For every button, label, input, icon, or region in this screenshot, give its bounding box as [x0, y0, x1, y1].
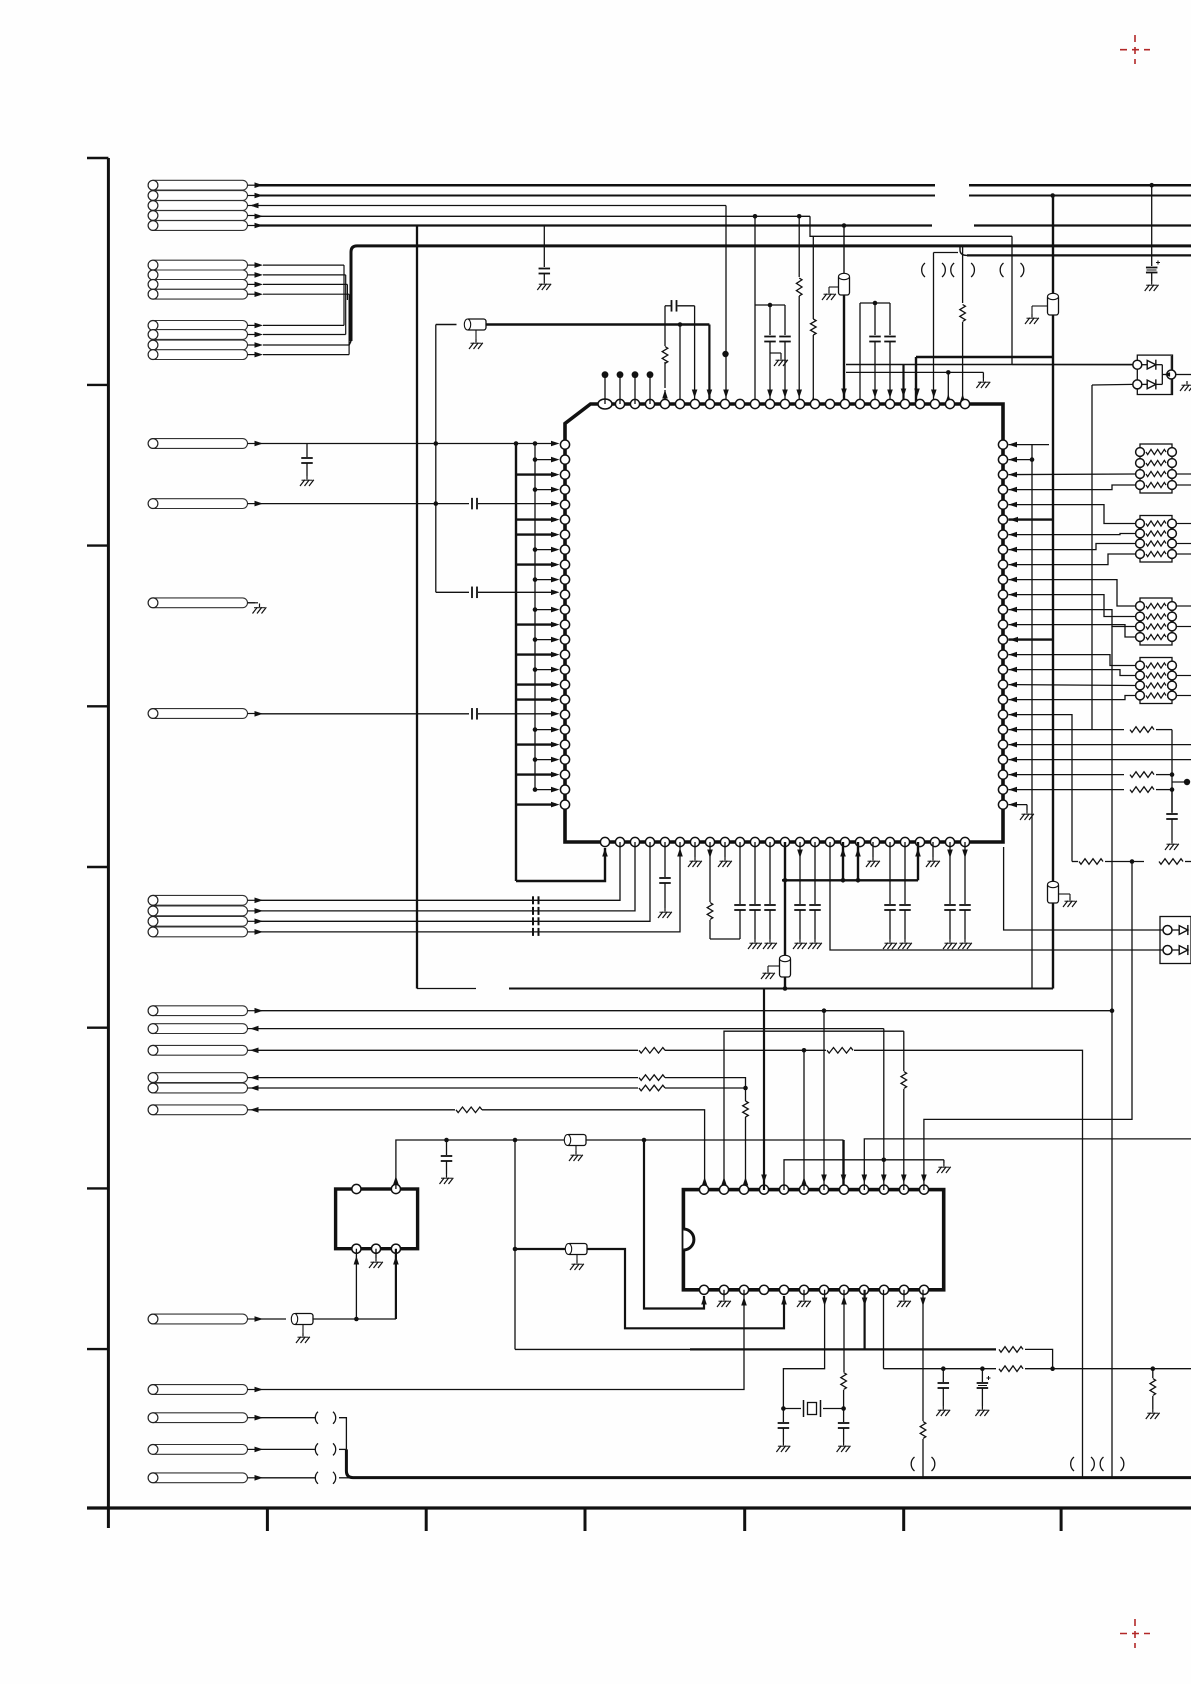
connector CN6: [148, 598, 247, 608]
connector CN8 pin 3: [148, 916, 247, 926]
capacitor C1 with ground: [543, 226, 545, 268]
RN2 resistor 1: [1136, 519, 1145, 528]
wire thick rail into IC2 pin T8: [842, 1140, 844, 1190]
capacitor C11 with ground x1172: [1171, 790, 1173, 813]
jumper J1 into pin T23: [933, 253, 935, 405]
IC U1 QFP body: [565, 404, 1003, 842]
connector CN1 pin 4: [148, 211, 247, 221]
connector CN18: [148, 1445, 247, 1455]
wire x1082 to jumper J5: [1082, 1455, 1084, 1477]
RN3 resistor 1: [1136, 602, 1145, 611]
connector CN12: [148, 1073, 247, 1083]
node pin T6 tap: [678, 322, 683, 327]
ground of T24 rail: [982, 372, 984, 378]
crystal X2: [781, 1406, 786, 1411]
wire thick rail to pin T8: [486, 323, 709, 325]
wire IC2 B10 to rail y1368: [883, 1290, 885, 1369]
wire IC2 B3 to CN16 line: [255, 1290, 744, 1390]
wire thick into U1 pin L17: [516, 683, 556, 685]
connector CN6 ground stub: [248, 602, 259, 604]
wire into U1 pin L14: [533, 637, 538, 642]
ground of L6: [575, 1146, 577, 1152]
node on bus CN1-2: [1050, 193, 1055, 198]
resistor R10 under pin B8: [709, 842, 711, 902]
diode block D3 D4 box: [1160, 917, 1191, 964]
wire thick into U1 pin L21: [516, 743, 556, 745]
ground of L1: [475, 330, 477, 339]
connector CN19: [148, 1473, 247, 1483]
diode block D1 D2 box: [1137, 355, 1172, 394]
connector CN1 pin 5: [148, 221, 247, 231]
capacitor C6 to pin T20: [889, 303, 891, 335]
capacitor C22 with ground on rail: [446, 1140, 448, 1155]
capacitor C26 polarized with ground: [981, 1369, 983, 1382]
wire row4 jog down: [810, 216, 1012, 236]
ground stub pin B9: [724, 842, 726, 857]
wire U1 pin R19 to x1072: [1009, 715, 1073, 862]
RN2 resistor 3: [1136, 539, 1145, 548]
module X1 body: [336, 1189, 418, 1249]
wire IC2 T11 with resistor R17: [903, 1031, 905, 1071]
wire pin B16 to D2 row: [830, 842, 1168, 950]
wire CN15 with ferrite bead L8: [255, 1318, 286, 1320]
wire into U1 pin L24: [533, 787, 538, 792]
wire CN5 to U1 pin L5 with series capacitor C8: [255, 503, 469, 505]
wire thick into U1 pin L18: [516, 698, 556, 700]
ground stub X1 B2: [375, 1249, 377, 1258]
wire CN19 with break joining thick bus: [255, 1477, 315, 1479]
wire CN9 line: [255, 1010, 1112, 1012]
border bottom rule: [87, 1506, 1191, 1509]
wire thick bottom bus: [346, 1449, 1191, 1477]
wire bundle B1-C1: [343, 265, 345, 325]
wire IC2 B12 with resistor R19 to jumper: [922, 1290, 924, 1421]
wire IC2 T7 riser: [823, 1011, 825, 1190]
diode common node: [1161, 365, 1163, 385]
capacitor C23 with ground: [782, 1409, 784, 1423]
diode D4: [1163, 946, 1172, 955]
border left zone ticks: [87, 384, 108, 386]
capacitor C2 series: [665, 305, 671, 307]
wire U1 pin R20 row with resistor R5: [1009, 729, 1125, 731]
capacitor C5 to pin T19: [874, 303, 876, 335]
wire IC2 T12 feed: [924, 862, 1132, 1191]
wire into pin T7: [694, 306, 696, 404]
wire CN12 line with resistor R13: [255, 1077, 638, 1079]
ground stub pin B23: [932, 842, 934, 857]
wire into U1 pin L10: [533, 577, 538, 582]
ground stub IC2 B6: [803, 1290, 805, 1297]
diode output pin: [1170, 356, 1172, 394]
wire big-loop vertical: [416, 226, 418, 989]
wire CN11 line with resistors R11 R12: [255, 1049, 638, 1051]
X1 top pins: [352, 1184, 361, 1193]
ground of bead L7: [576, 1255, 578, 1261]
rail y1140: [440, 1139, 844, 1141]
ground stub of L2: [829, 286, 839, 288]
connector CN10: [148, 1024, 247, 1034]
wire thick into U1 pin L7: [516, 533, 556, 535]
wire thick pins B17 B18 B22 rail: [782, 879, 918, 881]
capacitor C7 with ground on CN4 line: [306, 444, 308, 458]
wire bus CN1-3: [252, 205, 726, 207]
wire CN18 with break: [255, 1448, 315, 1450]
wire U1 pin R17 to RN4: [1009, 684, 1136, 687]
RN3 resistor 3: [1136, 622, 1145, 631]
wire U1 pin R21 long: [1009, 744, 1191, 746]
RN4 resistor 1: [1136, 661, 1145, 670]
border left rule: [107, 158, 110, 1528]
wire IC2 T5 to ground rail y1160: [784, 1160, 944, 1190]
wire U1 pin R11 to RN3: [1009, 595, 1136, 617]
wire into U1 pin L16: [533, 667, 538, 672]
wire X1 T2 riser to y1140 rail: [396, 1140, 440, 1189]
capacitor C18 with ground under pin B20: [889, 842, 891, 904]
wire U1 pin R15 to RN4: [1009, 655, 1136, 666]
wire U1 pin R13 to RN3: [1009, 625, 1136, 637]
wire bundle B2-C2: [345, 275, 347, 335]
ferrite bead L1 on U1 pin T8 rail: [436, 324, 457, 326]
wires CN8 rows to U1 pins B2 B3 B4 B6: [255, 842, 620, 900]
connector CN15: [148, 1314, 247, 1324]
X1 bottom pins: [352, 1244, 361, 1253]
wire thick rail to pin T22: [916, 356, 1053, 358]
jumper J5: [1071, 1457, 1095, 1471]
wire CN17 with break: [255, 1417, 315, 1419]
wire U1 pin R10 to RN3: [1009, 580, 1136, 606]
node row4 dropper: [797, 214, 802, 219]
wire thick into U1 pin L23: [516, 773, 556, 775]
diode D2: [1133, 380, 1142, 389]
RN1 resistor 2: [1136, 459, 1145, 468]
capacitor C24 with ground: [843, 1409, 845, 1423]
wire into U1 pin L4: [533, 487, 538, 492]
RN4 resistor 4: [1136, 691, 1145, 700]
wire bundle B3-C3 thick riser: [346, 284, 348, 300]
wire into U1 pin L12: [533, 607, 538, 612]
connector CN1 pin 1: [148, 180, 247, 190]
wire U1 pin R9 to RN2: [1009, 554, 1136, 565]
wire thick IC2 B9 to rail y1349: [863, 1290, 865, 1350]
wire jog CN1-3 to row4: [725, 206, 727, 217]
jumper J4: [911, 1457, 935, 1471]
wire thick U1 pin R14 from VCC x1053: [1009, 638, 1054, 640]
wire branch to U1 pin L11 with series capacitor C9: [436, 591, 469, 593]
connector CN17: [148, 1413, 247, 1423]
wire CN7 to U1 pin L19 with series capacitor C10: [255, 713, 469, 715]
node pin T24 feed: [946, 370, 951, 375]
wire IC2 B7 to crystal: [783, 1290, 824, 1409]
IC2 notch: [683, 1229, 694, 1250]
capacitor C15 with ground under pin B12: [769, 842, 771, 904]
capacitor C25 with ground: [942, 1369, 944, 1382]
U1 right pins: [998, 440, 1007, 449]
resistor R9: [1159, 859, 1183, 865]
wire U1 pin R22 long: [1009, 759, 1191, 761]
border bottom zone ticks: [266, 1508, 269, 1531]
wire into IC2 pin T3 with resistor R15: [745, 1088, 747, 1101]
connector CN8 pin 2: [148, 906, 247, 916]
capacitor C20 with ground under pin B24: [949, 842, 951, 904]
connector CN3 pin 1: [148, 321, 247, 331]
ground stub IC2 B11: [903, 1290, 905, 1297]
diode output stub: [1176, 374, 1191, 376]
wire x515 vertical: [514, 1140, 516, 1349]
node row5 dropper to L2 bead: [842, 223, 847, 228]
feedthrough capacitor marks on CN8 rows: [533, 896, 539, 904]
wire IC2 T4 thick from rail y988: [763, 989, 765, 1191]
wire thick bead rail to IC2 pin B5: [515, 1248, 566, 1250]
capacitor C17 with ground under pin B15: [814, 842, 816, 904]
wire thick vertical feed bus x516: [515, 445, 517, 882]
wire into U1 pin L8: [533, 547, 538, 552]
ferrite bead L6 on rail: [564, 1135, 586, 1146]
U1 no-connect dots above pins T1-T4: [604, 378, 606, 404]
capacitor C4 to pin T13: [784, 305, 786, 335]
jumper J3: [1011, 236, 1013, 364]
resistor network RN2 body: [1140, 516, 1172, 563]
connector CN11: [148, 1045, 247, 1055]
RN1 resistor 1: [1136, 448, 1145, 457]
wire IC2 B8 with resistor R18 to crystal: [843, 1290, 845, 1372]
wire IC2 T6 riser: [803, 1050, 805, 1190]
connector CN8 pin 4: [148, 927, 247, 937]
ground stub of L3: [1032, 305, 1048, 307]
wire thick into U1 pin L15: [516, 653, 556, 655]
wire J1 top link: [934, 252, 959, 254]
ground stub left rail: [770, 352, 781, 354]
wire thick into pin T17: [843, 295, 845, 404]
capacitor C16 with ground under pin B14: [799, 842, 801, 904]
resistor R2 into pin T14: [798, 216, 800, 277]
wire thick B1 feed: [516, 848, 605, 881]
ferrite bead L4 on x1053: [1048, 881, 1059, 903]
registration cross top-right: [1120, 35, 1150, 64]
rail y1368.7 with components: [884, 1368, 997, 1370]
resistor R1 on pin T5: [664, 390, 666, 404]
connector CN3 pin 4: [148, 350, 247, 360]
wire thick U1 pin R6 from VCC x1053: [1009, 518, 1054, 520]
wire into U1 pin L2: [533, 457, 538, 462]
capacitor C19 with ground under pin B21: [904, 842, 906, 904]
resistor R3 into pin T15: [812, 236, 814, 319]
wire x1112 upper: [1111, 627, 1113, 1011]
wire left branch vertical x436: [435, 325, 437, 593]
connector CN1 pin 2: [148, 191, 247, 201]
wire x1112 vertical: [1111, 1011, 1113, 1478]
RN3 resistor 4: [1136, 633, 1145, 642]
wire x1092 to D2: [1092, 383, 1133, 386]
wire U1 pin R23 row with resistor R6: [1009, 774, 1125, 776]
wire second thick rail right: [960, 246, 967, 256]
wire thick bus VCC: [351, 246, 1191, 341]
wire U1 pin R8 to RN2: [1009, 544, 1136, 550]
connector CN14: [148, 1105, 247, 1115]
wire top rail T11-T13: [755, 304, 785, 306]
wire thick X1 B3 riser: [395, 1249, 397, 1319]
connector CN3 pin 2: [148, 330, 247, 340]
IC2 bottom pins: [699, 1285, 708, 1294]
connector CN5: [148, 499, 247, 509]
RN4 resistor 2: [1136, 671, 1145, 680]
node option dot on T9 wire: [722, 351, 728, 357]
node on bus CN1-1: [1149, 183, 1154, 188]
jumper J2 with resistor R4 into pin T25: [962, 246, 964, 303]
capacitor C12 with ground on pin B5: [664, 842, 666, 877]
connector CN7: [148, 709, 247, 719]
wire pin T11 lower: [754, 305, 756, 404]
wire IC2 T10 from node: [883, 1160, 885, 1190]
wire thick VCC corner to bottom rail: [1052, 903, 1054, 989]
rail y1349 with resistor R20: [515, 1348, 690, 1350]
U1 top pins: [615, 399, 624, 408]
wire U1 pin R25 with ground: [1009, 804, 1028, 806]
connector CN4: [148, 439, 247, 449]
node x1132 on row: [1130, 859, 1135, 864]
wire U1 pin R3 to RN1: [1009, 473, 1136, 476]
connector CN13: [148, 1083, 247, 1093]
wire thick rail to pin T21: [846, 364, 1136, 366]
wire U1 pin R1 from x1032 bus: [1032, 444, 1049, 446]
ground stub of L4: [1059, 893, 1071, 895]
U1 left pins: [560, 440, 569, 449]
node right edge: [1172, 781, 1187, 783]
wire thick x644 to IC2 pin B1: [644, 1140, 704, 1309]
wire U1 pin R18 to RN4: [1009, 696, 1136, 700]
IC2 DIP body: [683, 1190, 943, 1290]
connector CN1 pin 3: [148, 201, 247, 211]
RN3 resistor 2: [1136, 612, 1145, 621]
RN2 resistor 4: [1136, 550, 1145, 559]
wire thick pin B13 with ferrite bead L5: [784, 842, 786, 957]
connector CN9: [148, 1006, 247, 1016]
wire into U1 pin L22: [533, 757, 538, 762]
resistor network RN3 body: [1140, 598, 1172, 645]
capacitor C3 to pin T12: [769, 305, 771, 335]
wire CN13 line with resistor R14: [255, 1087, 638, 1089]
wire thick into U1 pin L6: [516, 518, 556, 520]
wire thick into U1 pin L9: [516, 563, 556, 565]
border top-left tick: [87, 157, 108, 160]
resistor R8: [1079, 859, 1103, 865]
wire pin T11 riser: [754, 216, 756, 305]
U1 bottom pins: [600, 837, 609, 846]
wire thick into U1 pin L25: [516, 803, 556, 805]
RN right side stubs: [1177, 473, 1191, 475]
IC2 top pins: [699, 1185, 708, 1194]
ground stub IC2 B2: [723, 1290, 725, 1297]
wire U1 pin R24 row with resistor R7: [1009, 789, 1125, 791]
ground of L8: [302, 1325, 304, 1334]
wire pin R24 riser to D1 row: [1004, 847, 1168, 930]
wire x1072 corner row: [1072, 861, 1078, 863]
RN4 resistor 3: [1136, 681, 1145, 690]
wire bus CN1-4: [255, 215, 810, 217]
wire bus CN1-1: [255, 184, 935, 187]
wire pin T18 riser: [859, 303, 861, 404]
diode D1: [1133, 360, 1142, 369]
RN1 resistor 4: [1136, 481, 1145, 490]
wire bus CN1-2: [255, 195, 935, 197]
wire U1 pin R2: [1030, 457, 1035, 462]
connector CN3 pin 3: [148, 340, 247, 350]
wire IC2 T2 row: [724, 1031, 904, 1190]
RN1 resistor 3: [1136, 470, 1145, 479]
wire CN10 line: [255, 1028, 884, 1030]
connector CN2 pin 1: [148, 260, 247, 270]
wire res to cap bottom link: [710, 938, 740, 940]
wire top rail T18-T20: [860, 302, 890, 304]
wire dropper row3 to U1 pin T9: [725, 216, 727, 404]
capacitor C21 with ground under pin B25: [964, 842, 966, 904]
diode D3: [1163, 926, 1172, 935]
wire ground rail y988.5: [417, 988, 476, 990]
connector CN16: [148, 1385, 247, 1395]
wire X1 B1 riser: [355, 1249, 357, 1319]
wire thick into U1 pin L3: [516, 473, 556, 475]
U1 pin 1 index oval: [598, 399, 612, 409]
capacitor C27 electrolytic with ground x1151: [1151, 185, 1153, 266]
wire thick into U1 pin L13: [516, 623, 556, 625]
wire bundle B4-C4: [348, 294, 350, 354]
resistor network RN4 body: [1140, 658, 1172, 704]
wire thin vertical feed bus x535: [534, 445, 536, 791]
ferrite bead L3 on x1053: [1048, 293, 1059, 315]
ground stub pin B19: [872, 842, 874, 857]
resistor R21 with ground x1152: [1152, 1369, 1154, 1378]
wire U1 pin R12 to RN3: [1009, 610, 1136, 627]
capacitor C14 with ground under pin B11: [754, 842, 756, 904]
jumper J6: [1100, 1457, 1124, 1471]
wire U1 pin R5 to RN2: [1009, 505, 1136, 524]
wire U1 pin R4 to RN1: [1009, 485, 1136, 490]
wire vertical bus x1032: [1031, 445, 1033, 989]
connector CN2 pin 3: [148, 280, 247, 290]
connector CN8 pin 1: [148, 895, 247, 905]
ground stub pin B7: [694, 842, 696, 857]
wire into U1 pin L20: [533, 727, 538, 732]
wire U1 pin R7 to RN2: [1009, 534, 1136, 535]
wire U1 pin R16 to RN4: [1009, 670, 1136, 676]
wire thick VCC vertical x1053: [1052, 196, 1054, 296]
connector CN2 pin 2: [148, 270, 247, 280]
wire CN14 line with resistor R16: [255, 1109, 455, 1111]
ground stub of L5: [768, 965, 780, 967]
wire bus CN1-5: [255, 224, 932, 226]
wire CN4 to U1 pin L1: [255, 443, 556, 445]
RN2 resistor 2: [1136, 529, 1145, 538]
wire vertical x1092: [1091, 385, 1093, 730]
resistor network RN1 body: [1140, 444, 1172, 493]
connector CN2 pin 4: [148, 289, 247, 299]
ferrite bead L2 into pin T17: [843, 226, 845, 276]
wire IC2 T9 row to right edge: [864, 1139, 1191, 1190]
capacitor C13 under pin B10: [739, 842, 741, 904]
registration cross bottom-right: [1120, 1619, 1150, 1648]
ground glyph near diode output: [1180, 381, 1191, 391]
wire J3 to D1: [1012, 364, 1133, 366]
